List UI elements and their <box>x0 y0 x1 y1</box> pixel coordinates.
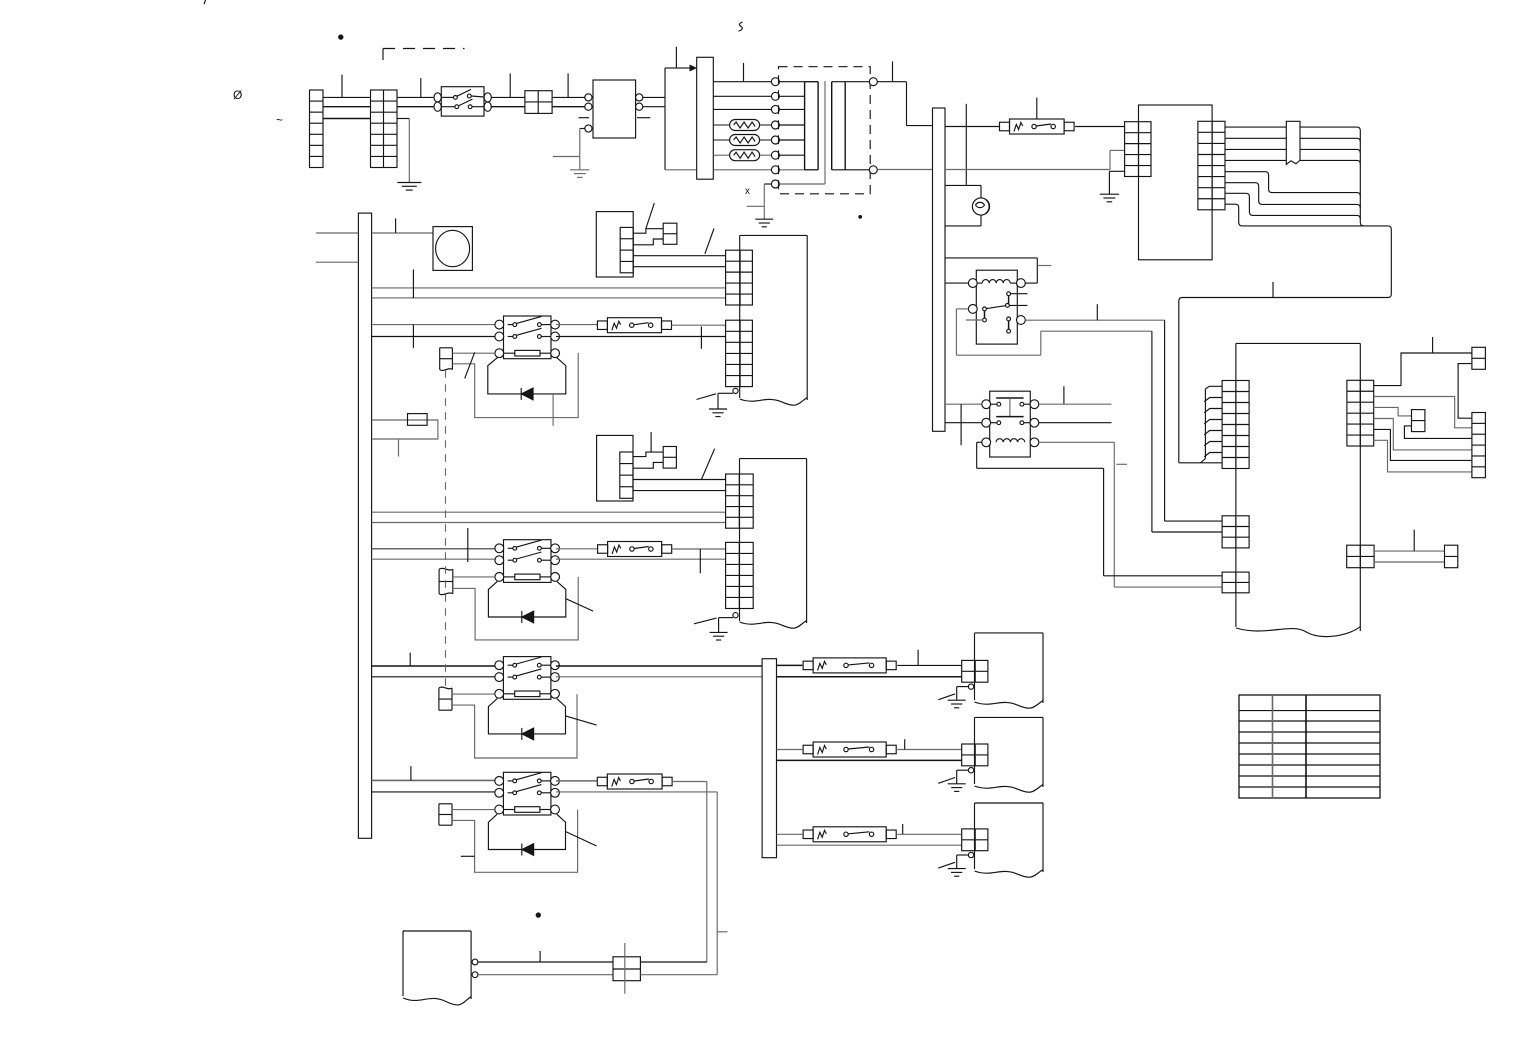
wire B2 to X18 r2 <box>478 974 613 976</box>
door switch module S3 <box>495 657 560 700</box>
wire CN3 to S3 r3 <box>452 693 495 695</box>
door unit D2 <box>740 459 807 629</box>
wire T2 to F3 <box>777 664 803 666</box>
fuse F3 <box>803 658 896 673</box>
K1 common wire <box>956 309 1222 532</box>
K1 contact stub a <box>1011 293 1028 295</box>
stub above L1 c <box>509 73 511 97</box>
wire S1 to F1 <box>556 324 598 326</box>
stub above transformer <box>743 63 745 82</box>
heater element E1 <box>730 120 760 131</box>
lever at X14 <box>705 229 714 254</box>
diode module V4 <box>488 814 565 855</box>
ground at X4 <box>1100 171 1125 202</box>
wire CB1 to X14 r2 <box>633 266 725 268</box>
main unit A2 outline <box>1236 343 1360 636</box>
wire T2 to P3 r2 <box>777 844 962 846</box>
stub wire into bus a <box>316 232 358 234</box>
wire T2 to P2 r2 <box>777 759 962 761</box>
fuse F0 <box>1000 119 1075 134</box>
heater element E2 <box>730 135 760 146</box>
tick crossing K2 wires <box>960 404 962 445</box>
wire CB2 to X16 r2 <box>633 490 726 492</box>
stub below V1 <box>552 394 554 426</box>
wire bus to S1 r2 <box>372 336 500 338</box>
terminal strip X6 <box>1222 381 1249 469</box>
wire bus to X14 r4 <box>372 287 726 289</box>
connector X18 <box>613 943 640 994</box>
monitor unit B1 <box>433 227 472 271</box>
connector P2 <box>962 744 988 766</box>
key switch box E2 <box>663 447 676 469</box>
terminal rings B2 <box>472 959 478 978</box>
K2 NC stub b <box>1039 422 1112 424</box>
K1 NO wire to X6 <box>1025 320 1222 521</box>
connector CN1 <box>440 348 453 371</box>
terminal strip X10 <box>1347 545 1374 568</box>
door switch module S2 <box>495 540 560 583</box>
ground at X15 <box>697 393 734 416</box>
wire bus to K2 row1 <box>945 403 982 405</box>
tick on B2 wire <box>539 951 541 962</box>
load unit M2 <box>975 717 1044 792</box>
terminal ring P1 <box>968 684 973 689</box>
svg-text:Ø: Ø <box>233 88 242 102</box>
loop CN4 around diode <box>452 810 578 873</box>
wire L2 X1-X2 <box>323 106 371 108</box>
wire bus to X14 r5 <box>372 297 726 299</box>
stub above E2 <box>650 432 652 452</box>
wire K3 to X12 <box>1404 426 1472 439</box>
connector X11 <box>1472 347 1486 369</box>
wire bus to monitor <box>372 218 433 233</box>
wire F6 down <box>672 782 707 963</box>
page corner tick <box>204 0 206 4</box>
stub above F5 wire <box>902 824 904 834</box>
wire F4 to P2 <box>897 749 961 751</box>
wire L1 S1-X3 <box>491 96 525 98</box>
ground at U1 <box>553 129 589 178</box>
controller module A1 <box>1139 105 1213 260</box>
connector CN2 <box>439 568 453 594</box>
lever at X16 <box>701 449 714 480</box>
wire U1 out to node <box>643 97 665 106</box>
wire T2 to P1 r2 <box>777 676 962 678</box>
wire X11 to X12 r1 <box>1458 364 1472 419</box>
lever at V3 <box>566 716 597 725</box>
terminal strip X15 <box>726 320 753 386</box>
ground below X2 <box>397 183 421 191</box>
harness wires X5 rows5-7 <box>1225 172 1360 219</box>
stub wire into bus b <box>316 261 358 263</box>
indicator lamp H1 <box>945 185 990 226</box>
wire CN4 to S4 r3 <box>452 809 495 811</box>
jumper CB1 a <box>633 229 663 234</box>
ground at X17 <box>694 618 733 640</box>
stub above K1 NO wire <box>1096 304 1098 320</box>
wire L3 to ground <box>397 119 409 183</box>
terminal strip X4 <box>1125 122 1151 177</box>
control bus bar <box>933 108 946 431</box>
tick on wires c <box>700 327 702 349</box>
loop CN2 around diode <box>453 577 578 640</box>
wire T2 to F4 <box>777 749 803 751</box>
wire CB1 to X14 r1 <box>633 255 725 257</box>
wire F1 to X14 <box>672 324 726 326</box>
wire bus to S3 r1 <box>372 665 499 667</box>
contactor bar K0 <box>697 57 714 179</box>
dot marker small <box>859 216 862 219</box>
wire X10 to X13 r1 <box>1374 550 1444 552</box>
terminal strip X7 <box>1222 516 1249 548</box>
wires contactor to transformer <box>713 82 771 170</box>
wire bus to S2 r1 <box>372 548 500 550</box>
dashed line door interlock <box>445 370 447 688</box>
wire bus to fuse F0 <box>945 126 1000 128</box>
K2 coil wire left <box>977 442 1222 576</box>
tick on wires b <box>412 325 414 348</box>
wire bus to X16 r4 <box>372 511 726 513</box>
harness fan-out to X6 <box>1179 386 1222 463</box>
terminal strip X16 <box>726 474 754 528</box>
tick on wires e <box>699 549 701 573</box>
wire CN2 to S2 r3 <box>453 576 495 578</box>
connector P3 <box>962 829 988 851</box>
filter module U1 <box>579 80 651 138</box>
connector X13 <box>1445 545 1458 568</box>
K1 aux stub <box>966 319 983 321</box>
wire T1 top to bus <box>877 62 932 126</box>
wire L3 X1-X2 <box>323 118 371 120</box>
wire X9 r4 to X12 <box>1374 419 1472 450</box>
jumper CB2 b <box>633 462 663 468</box>
stub above F0 <box>1036 98 1038 120</box>
connector CN4 <box>439 804 452 825</box>
stub above X10 wire <box>1413 530 1415 551</box>
stub above L1 b <box>420 78 422 97</box>
stub above S4 wire <box>410 766 412 780</box>
stub crossing bus right <box>965 104 967 186</box>
lever at CB1 <box>646 203 654 228</box>
transformer secondary terminals <box>869 78 877 174</box>
diode module V1 <box>488 358 566 400</box>
door connector box CB1 <box>596 212 633 277</box>
wire T1 bottom to bus <box>877 169 932 171</box>
wire bus to S4 r1 <box>372 779 499 781</box>
wire L2 S1-X3 <box>491 106 525 108</box>
terminal ring P2 <box>968 768 973 773</box>
terminal strip X5 <box>1198 121 1225 210</box>
relay K1 <box>968 270 1025 344</box>
label x <box>745 186 750 197</box>
wire L1 X1-X2 <box>323 96 371 98</box>
wire X9 r5 to X12 <box>1374 429 1472 460</box>
K2 NC stub a <box>1039 403 1112 405</box>
connector X12 <box>1472 413 1486 478</box>
interference squiggle <box>739 22 743 31</box>
connector P1 <box>962 660 988 682</box>
wire X18 to riser a <box>640 961 706 963</box>
wire bus to K1 coil <box>945 282 968 284</box>
left distribution bus <box>358 213 371 838</box>
lever at V2 <box>566 599 593 611</box>
wire F5 to P3 <box>897 833 961 835</box>
load unit M3 <box>975 803 1044 877</box>
wire F2 to X17 <box>672 548 726 550</box>
wire bus to S2 r2 <box>372 558 500 560</box>
loop CN1 around diode <box>452 353 578 418</box>
stub on trunk <box>1272 282 1274 298</box>
reference dot marker <box>339 35 343 39</box>
wire S2 to F2 <box>556 548 598 550</box>
svg-text:x: x <box>745 186 750 197</box>
tick on wires d <box>467 528 469 562</box>
fuse F5 <box>803 827 896 842</box>
stub above F3 wire <box>917 650 919 666</box>
dashed enclosure around T1 <box>779 67 871 194</box>
wire bus to S3 r2 <box>372 676 499 678</box>
relay K2 <box>982 391 1039 457</box>
transformer T1 shield line <box>779 81 825 184</box>
terminal strip X9 <box>1347 380 1374 446</box>
fuse F4 <box>803 742 896 757</box>
stub above K2 out <box>1063 386 1065 404</box>
terminal block X2 <box>371 90 398 168</box>
wire L2 X3-U1 <box>552 106 585 108</box>
terminal strip X14 <box>726 250 753 305</box>
K1 coil return loop <box>945 258 1051 283</box>
terminal ring X15 end <box>733 388 738 393</box>
legend table <box>1239 695 1380 798</box>
wire X18 to riser b <box>640 974 717 976</box>
wire CN1 to S1 r3 <box>452 352 495 354</box>
transformer primary terminals <box>771 78 779 188</box>
stub above L1 a <box>341 75 343 98</box>
connector K3 <box>1412 410 1425 432</box>
diode module V3 <box>488 699 565 740</box>
wire S4 r2 down <box>556 792 728 975</box>
door connector box CB2 <box>597 435 633 501</box>
jumper CB2 a <box>633 452 663 457</box>
wire S2 r2 to X17 <box>556 558 726 560</box>
svg-text:~: ~ <box>276 113 283 127</box>
K2 coil wire right <box>1039 442 1222 587</box>
terminal block X1 <box>310 90 324 168</box>
resistor loop on bus <box>372 414 438 457</box>
stub above F4 wire <box>904 739 906 749</box>
dot marker bottom <box>536 913 540 917</box>
K1 contact stub b <box>1009 304 1027 306</box>
wire S3 r1 to bus2 <box>556 665 762 667</box>
dashed partition corner <box>383 49 465 61</box>
diode module V2 <box>488 581 565 623</box>
terminal ring P3 <box>968 852 973 857</box>
stub above X11 wire <box>1432 337 1434 353</box>
wire bus to X16 r5 <box>372 522 726 524</box>
ground at P2 <box>938 770 968 791</box>
stub above S3 wire <box>409 653 411 666</box>
wire X9 r3 to K3 <box>1374 407 1412 416</box>
load unit M1 <box>975 633 1044 708</box>
wire bus to S1 r1 <box>372 324 500 326</box>
wire X9 r1 to X11 <box>1374 353 1472 386</box>
transformer T1 secondary bars <box>832 82 870 170</box>
wire T2 to F5 <box>777 833 803 835</box>
lever at V4 <box>566 832 597 847</box>
wire CB2 to X16 r1 <box>633 479 726 481</box>
tick at CN4 loop <box>461 855 475 857</box>
wire bus to K2 row2 <box>945 422 982 424</box>
terminal strip X8 <box>1222 572 1249 593</box>
connector CN3 <box>439 687 452 710</box>
key switch box E1 <box>663 223 677 244</box>
main disconnect switch Q1 <box>434 87 491 116</box>
fuse F1 <box>597 318 671 333</box>
fuse F2 <box>598 542 672 557</box>
wire X9 r6 to X12 <box>1374 440 1472 472</box>
wire to contactor bottom <box>665 169 697 171</box>
arrow into contactor <box>690 65 698 72</box>
heater element E3 <box>730 150 760 161</box>
door switch module S4 <box>495 772 560 815</box>
fuse F6 <box>597 774 672 789</box>
phase label Ø <box>233 88 242 102</box>
tick on wires a <box>412 270 414 298</box>
wire F0 to X4 <box>1075 126 1125 128</box>
door unit D1 <box>740 235 808 405</box>
ground at transformer <box>747 184 774 227</box>
wire S1 r2 to X14 <box>556 336 726 338</box>
distribution bar T2 <box>762 659 776 858</box>
wire L2 X2-S1 <box>397 106 433 108</box>
stub above L1 d <box>567 73 569 97</box>
ground at P1 <box>938 687 968 708</box>
wire L1 X3-U1 <box>552 96 585 98</box>
terminal strip X17 <box>726 542 754 608</box>
door switch module S1 <box>495 316 560 359</box>
wire bus to S4 r2 <box>372 791 499 793</box>
wire X9 r2 to X12 <box>1374 397 1472 428</box>
harness wire X5 row8 and trunk <box>1179 204 1392 463</box>
wire L1 X2-S1 <box>397 96 433 98</box>
wire bus to X4 row3 <box>945 150 1125 169</box>
lever at CN1 <box>465 352 475 378</box>
ground at P3 <box>938 855 968 876</box>
harness wires X5 rows1-4 <box>1225 127 1364 226</box>
loop CN3 around diode <box>452 694 577 758</box>
wire X10 to X13 r2 <box>1374 561 1444 563</box>
AC label ~ <box>276 113 283 127</box>
node split wire <box>665 47 690 170</box>
wire B2 to X18 r1 <box>478 961 613 963</box>
terminal ring X17 end <box>733 613 738 618</box>
terminal block X3 <box>525 91 552 114</box>
pump unit B2 <box>403 931 471 1005</box>
wire F3 to P1 <box>897 664 961 666</box>
jumper CB1 b <box>633 239 663 245</box>
cable wrap sleeve <box>1286 121 1300 164</box>
wire S3 r2 to bus2 <box>556 676 762 678</box>
transformer T1 primary bars <box>779 82 818 170</box>
wire S4 r1 to F6 <box>556 780 597 782</box>
